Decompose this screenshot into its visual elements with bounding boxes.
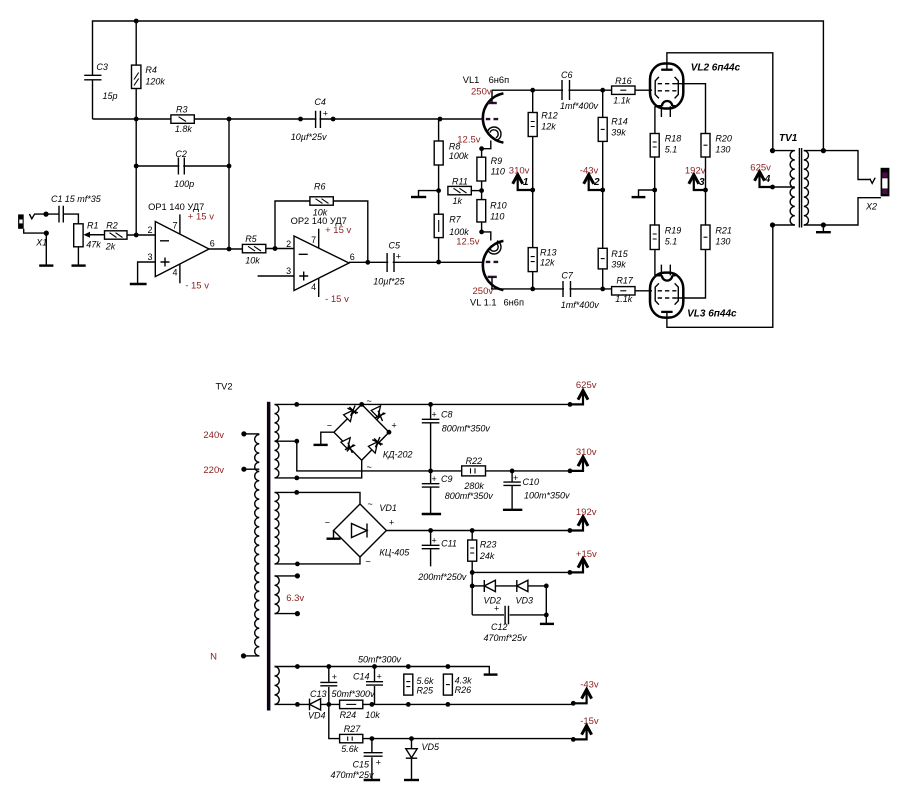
ground W4 top line bbox=[484, 673, 498, 675]
svg-text:10k: 10k bbox=[245, 256, 260, 266]
svg-text:+: + bbox=[332, 672, 337, 682]
svg-text:−: − bbox=[325, 518, 330, 528]
tube VL1.1 lower triode envelope bbox=[483, 241, 504, 290]
svg-text:130: 130 bbox=[715, 237, 730, 247]
node arrow 625v bbox=[570, 380, 597, 404]
node arrow 310v bbox=[570, 447, 597, 471]
tube VL2 beam plates bbox=[655, 77, 678, 99]
node arrow 192v bbox=[570, 507, 597, 531]
wire R20 R21 column bbox=[705, 157, 707, 225]
ground OP1 pin3 bbox=[130, 283, 147, 285]
svg-text:100k: 100k bbox=[449, 227, 469, 237]
svg-text:12.5v: 12.5v bbox=[457, 135, 480, 146]
ground C12 bbox=[545, 615, 547, 623]
tube VL2 screen grid bbox=[658, 83, 677, 85]
resistor R8 bbox=[434, 141, 469, 165]
svg-text:250v: 250v bbox=[473, 286, 494, 297]
capacitor C7 bbox=[561, 271, 600, 311]
svg-text:470mf*25v: 470mf*25v bbox=[484, 633, 528, 643]
wire R5 to OP2 pin2 bbox=[266, 248, 294, 250]
wire TV1 secondary top to X2 tip bbox=[804, 151, 870, 180]
resistor R6 bbox=[310, 182, 333, 218]
capacitor C9 bbox=[422, 471, 493, 513]
svg-text:+: + bbox=[389, 518, 394, 528]
svg-text:~: ~ bbox=[367, 396, 372, 406]
capacitor C4 bbox=[291, 97, 328, 142]
wire OP2 pin3 stub bbox=[258, 275, 294, 277]
tube VL1.1 grid bbox=[486, 261, 498, 263]
svg-text:R15: R15 bbox=[611, 249, 629, 259]
wire +15v line bbox=[472, 571, 570, 573]
capacitor C3 bbox=[84, 62, 117, 101]
tube VL3 beam plates bbox=[655, 283, 678, 304]
resistor R3 bbox=[171, 105, 194, 135]
terminal 6.3v top bbox=[275, 575, 298, 577]
tube VL1 cathode lead bbox=[482, 141, 491, 149]
svg-text:1.8k: 1.8k bbox=[175, 124, 193, 134]
svg-text:39k: 39k bbox=[611, 128, 626, 138]
resistor R21 bbox=[701, 225, 732, 250]
ground bridge KD-202 bbox=[321, 432, 334, 444]
svg-text:6н6п: 6н6п bbox=[504, 298, 525, 308]
svg-text:2: 2 bbox=[147, 225, 152, 235]
tube VL1 upper triode envelope bbox=[483, 93, 504, 142]
svg-text:7: 7 bbox=[172, 221, 177, 231]
wire TV1 secondary bottom and X2 return loop bbox=[804, 198, 881, 225]
svg-text:TV1: TV1 bbox=[779, 133, 798, 144]
connector X2 tip contact bbox=[870, 178, 875, 184]
resistor R17 bbox=[612, 276, 635, 305]
svg-text:+: + bbox=[376, 758, 381, 768]
svg-text:1mf*400v: 1mf*400v bbox=[561, 300, 600, 310]
svg-text:4: 4 bbox=[764, 174, 771, 185]
svg-text:24k: 24k bbox=[479, 551, 495, 561]
svg-text:C7: C7 bbox=[561, 271, 573, 281]
wire C1 to R1 top bbox=[63, 214, 78, 224]
resistor R23 bbox=[468, 540, 497, 562]
wire C3 bottom lead bbox=[92, 80, 94, 119]
svg-text:C1: C1 bbox=[51, 194, 63, 204]
svg-text:C3: C3 bbox=[96, 62, 108, 72]
svg-text:R27: R27 bbox=[344, 724, 362, 734]
transformer TV1 primary winding bbox=[790, 151, 795, 225]
transformer TV2 winding W2 bbox=[275, 492, 279, 564]
resistor R25 bbox=[404, 674, 434, 695]
svg-text:R4: R4 bbox=[145, 65, 157, 75]
svg-text:-43v: -43v bbox=[580, 165, 599, 176]
wire R16 to VL2 grid bbox=[635, 89, 652, 91]
resistor R12 bbox=[528, 111, 558, 137]
wire R23 column bbox=[471, 531, 473, 615]
svg-text:C5: C5 bbox=[389, 241, 401, 251]
svg-text:310v: 310v bbox=[509, 165, 530, 176]
svg-text:- 15 v: - 15 v bbox=[185, 281, 209, 292]
svg-text:+: + bbox=[432, 410, 437, 420]
svg-text:VD5: VD5 bbox=[422, 742, 441, 752]
capacitor C8 bbox=[422, 404, 491, 471]
capacitor C1 bbox=[51, 194, 102, 223]
svg-text:12k: 12k bbox=[540, 258, 555, 268]
connector X1 bbox=[18, 214, 47, 248]
svg-text:R21: R21 bbox=[715, 226, 732, 236]
resistor R18 bbox=[650, 134, 681, 158]
svg-text:470mf*25v: 470mf*25v bbox=[331, 770, 375, 780]
wire R14 R15 column bbox=[602, 90, 604, 289]
svg-text:110: 110 bbox=[490, 212, 504, 222]
diode bridge bottom-left bbox=[341, 438, 355, 453]
svg-text:4.3k: 4.3k bbox=[455, 676, 473, 686]
wire W4 bottom -43v line bbox=[275, 703, 574, 705]
wire R17 to VL3 grid bbox=[635, 290, 652, 292]
wire R12 R13 column bbox=[532, 90, 534, 289]
svg-text:250v: 250v bbox=[471, 87, 492, 98]
svg-text:R10: R10 bbox=[490, 201, 507, 211]
wire R18 R19 column bbox=[654, 157, 656, 225]
svg-text:VL2 6п44с: VL2 6п44с bbox=[691, 63, 741, 74]
svg-text:R16: R16 bbox=[615, 76, 632, 86]
rectifier VD1 frame bbox=[334, 504, 387, 557]
wire R2 to OP1 pin2 bbox=[127, 234, 155, 236]
svg-text:R22: R22 bbox=[466, 456, 483, 466]
wire VL2 cathode to R18 bbox=[654, 106, 656, 133]
svg-text:КЦ-405: КЦ-405 bbox=[379, 548, 410, 558]
svg-text:625v: 625v bbox=[576, 380, 597, 391]
wire VL2 screen to R20 bbox=[677, 84, 706, 134]
tube VL3 heater legs bbox=[661, 265, 670, 276]
capacitor C11 bbox=[417, 531, 467, 583]
svg-text:47k: 47k bbox=[86, 240, 101, 250]
svg-text:192v: 192v bbox=[685, 165, 706, 176]
svg-text:12k: 12k bbox=[541, 122, 556, 132]
ground R1 bbox=[72, 264, 86, 266]
svg-text:R13: R13 bbox=[540, 248, 557, 258]
node arrow -15v bbox=[573, 716, 599, 739]
svg-text:~: ~ bbox=[367, 462, 372, 472]
svg-text:2: 2 bbox=[286, 239, 291, 249]
svg-text:3: 3 bbox=[286, 266, 291, 276]
svg-text:R19: R19 bbox=[665, 226, 682, 236]
capacitor C10 bbox=[503, 471, 570, 509]
svg-text:C14: C14 bbox=[353, 672, 370, 682]
svg-text:R24: R24 bbox=[340, 710, 357, 720]
tube VL1.1 cathode bbox=[487, 241, 501, 254]
transformer TV2 primary winding bbox=[255, 435, 260, 656]
wire R6 feedback loop bbox=[275, 201, 368, 262]
svg-text:1.1k: 1.1k bbox=[613, 96, 631, 106]
svg-text:+: + bbox=[396, 252, 401, 262]
capacitor C15 bbox=[331, 739, 383, 780]
wire VL2 anode to TV1 primary top bbox=[667, 53, 773, 151]
wire R18 R19 midpoint ground stub bbox=[639, 190, 655, 196]
potentiometer R1 bbox=[74, 221, 105, 250]
svg-text:3: 3 bbox=[699, 177, 705, 188]
wire HV mid tap 310v rail bbox=[275, 441, 571, 471]
node arrow -43v bbox=[573, 680, 599, 704]
svg-text:4: 4 bbox=[311, 282, 316, 292]
resistor R14 bbox=[598, 117, 628, 142]
svg-text:200mf*250v: 200mf*250v bbox=[417, 572, 467, 582]
terminal 220v bbox=[244, 468, 259, 470]
svg-text:800mf*350v: 800mf*350v bbox=[445, 491, 494, 501]
svg-text:~: ~ bbox=[368, 499, 373, 509]
svg-text:R1: R1 bbox=[87, 221, 99, 231]
wire HV top lead 625v rail bbox=[275, 403, 571, 405]
svg-text:6: 6 bbox=[210, 239, 215, 249]
wire R27 branch bbox=[329, 704, 574, 738]
diode VD4 bbox=[308, 699, 326, 721]
resistor R24 bbox=[340, 700, 381, 720]
wire top feedback rail from C3 to TV1 secondary bbox=[93, 21, 824, 151]
svg-text:R23: R23 bbox=[480, 540, 497, 550]
tube VL2 control grid bbox=[658, 90, 677, 92]
ground VD1 bbox=[333, 531, 335, 539]
svg-text:~: ~ bbox=[366, 557, 371, 567]
svg-text:C4: C4 bbox=[314, 97, 326, 107]
svg-text:+: + bbox=[323, 109, 328, 119]
svg-text:N: N bbox=[210, 652, 217, 663]
svg-text:10µf*25v: 10µf*25v bbox=[291, 132, 327, 142]
svg-text:C13: C13 bbox=[310, 689, 327, 699]
wire C2 line bbox=[136, 165, 229, 167]
resistor R26 bbox=[443, 674, 472, 695]
ground C10 bbox=[503, 509, 522, 511]
resistor R22 bbox=[462, 456, 486, 491]
transformer TV2 winding W4 bbox=[275, 667, 280, 705]
wire OP1 pin3 ground stub bbox=[138, 262, 156, 283]
svg-text:5.6k: 5.6k bbox=[341, 744, 359, 754]
resistor R19 bbox=[650, 225, 681, 250]
capacitor C2 bbox=[174, 149, 194, 189]
svg-text:100k: 100k bbox=[449, 151, 469, 161]
svg-text:280k: 280k bbox=[463, 481, 484, 491]
svg-text:6н6п: 6н6п bbox=[489, 75, 510, 85]
resistor R2 bbox=[105, 221, 128, 252]
wire R1 bottom to ground bbox=[77, 247, 79, 265]
tube VL3 screen grid bbox=[658, 297, 677, 299]
svg-text:15p: 15p bbox=[103, 91, 118, 101]
wire TV1 secondary ground stub bbox=[822, 225, 824, 232]
svg-text:R18: R18 bbox=[665, 134, 682, 144]
svg-text:R25: R25 bbox=[417, 686, 435, 696]
svg-text:VL1: VL1 bbox=[463, 75, 480, 85]
svg-text:-15v: -15v bbox=[580, 716, 599, 727]
tube VL1 grid bbox=[486, 118, 498, 120]
junction dots amp bbox=[43, 19, 826, 292]
resistor R13 bbox=[528, 248, 556, 272]
connector X2 jack bbox=[865, 168, 889, 212]
svg-text:C12: C12 bbox=[491, 622, 508, 632]
wire R1 wiper to R2 bbox=[89, 234, 105, 236]
svg-text:VD1: VD1 bbox=[379, 503, 397, 513]
svg-text:C10: C10 bbox=[523, 477, 540, 487]
svg-text:120k: 120k bbox=[145, 77, 165, 87]
tube VL2 anode bbox=[661, 69, 672, 71]
svg-text:1: 1 bbox=[523, 177, 529, 188]
rectifier VD1 diode bbox=[352, 524, 368, 538]
svg-text:240v: 240v bbox=[203, 430, 224, 441]
wire OP1 output column bbox=[228, 119, 230, 249]
node 4 arrow 625v bbox=[750, 163, 772, 188]
svg-text:-43v: -43v bbox=[580, 680, 599, 691]
svg-text:X1: X1 bbox=[35, 238, 47, 248]
wire VL3 anode to TV1 primary bottom bbox=[667, 225, 773, 327]
svg-text:R14: R14 bbox=[611, 117, 628, 127]
wire cathode column R9 R10 bbox=[481, 149, 483, 232]
svg-text:6.3v: 6.3v bbox=[286, 593, 304, 604]
svg-text:310v: 310v bbox=[576, 447, 597, 458]
svg-text:C9: C9 bbox=[441, 474, 453, 484]
svg-text:КД-202: КД-202 bbox=[383, 450, 413, 460]
node 2 arrow -43v bbox=[580, 165, 603, 190]
wire W2 bottom to VD1 bbox=[275, 557, 361, 564]
resistor R15 bbox=[598, 248, 629, 269]
svg-text:800mf*350v: 800mf*350v bbox=[442, 424, 491, 434]
svg-text:R2: R2 bbox=[106, 221, 118, 231]
svg-text:VD3: VD3 bbox=[516, 596, 534, 606]
transformer TV2 core bbox=[267, 402, 271, 711]
terminal 240v bbox=[244, 433, 259, 435]
svg-text:1.1k: 1.1k bbox=[615, 294, 633, 304]
resistor R27 bbox=[340, 724, 363, 754]
svg-text:4: 4 bbox=[172, 268, 177, 278]
tube VL3 envelope bbox=[650, 273, 683, 318]
wire VL1.1 anode line y288.9 to R17 bbox=[491, 288, 612, 290]
svg-text:220v: 220v bbox=[203, 465, 224, 476]
op-amp OP1 bbox=[147, 202, 214, 292]
tube VL1 anode bbox=[488, 102, 497, 104]
svg-text:- 15 v: - 15 v bbox=[325, 294, 349, 305]
svg-text:R9: R9 bbox=[491, 156, 503, 166]
resistor R20 bbox=[701, 134, 732, 158]
svg-text:C8: C8 bbox=[441, 410, 453, 420]
resistor R10 bbox=[477, 200, 507, 222]
svg-text:OP1 140 УД7: OP1 140 УД7 bbox=[148, 202, 204, 212]
transformer TV2 HV winding bbox=[275, 404, 279, 478]
wire grid line y119 from C3 node to VL1 grid bbox=[93, 118, 484, 120]
svg-text:5.6k: 5.6k bbox=[417, 676, 435, 686]
resistor R9 bbox=[477, 156, 505, 181]
svg-text:VD4: VD4 bbox=[308, 711, 326, 721]
svg-text:R6: R6 bbox=[314, 182, 326, 192]
wire HV bottom lead bbox=[275, 460, 362, 478]
diode VD2 bbox=[472, 580, 501, 606]
diode bridge top-right bbox=[371, 406, 385, 421]
svg-text:R17: R17 bbox=[616, 276, 634, 286]
tube VL3 anode bbox=[661, 311, 672, 313]
svg-text:5.1: 5.1 bbox=[665, 237, 678, 247]
svg-text:50mf*300v: 50mf*300v bbox=[358, 655, 402, 665]
tube VL1.1 cathode lead bbox=[482, 232, 491, 241]
svg-text:3: 3 bbox=[147, 252, 152, 262]
wire X1 sleeve to ground bbox=[24, 229, 47, 265]
wire R11 to cathode column bbox=[471, 190, 481, 192]
wire R11 ground stub bbox=[419, 191, 439, 197]
transformer TV1 core bbox=[799, 148, 801, 228]
svg-text:R7: R7 bbox=[449, 215, 461, 225]
node arrow +15v bbox=[570, 549, 597, 572]
tube VL2 cathode bbox=[655, 101, 676, 106]
wire VL1 anode line y90 to R16 bbox=[492, 89, 612, 91]
wire R4 column from top rail to OP1 pin2 node bbox=[135, 21, 137, 235]
wire VD1 out 192v rail bbox=[386, 530, 570, 532]
transformer TV1 secondary winding bbox=[804, 151, 809, 225]
svg-text:R3: R3 bbox=[176, 105, 188, 115]
wire OP1 output to R5 bbox=[209, 248, 242, 250]
resistor R7 bbox=[434, 214, 469, 237]
svg-text:1k: 1k bbox=[453, 196, 463, 206]
wire OP2 output through C5 to VL1.1 grid bbox=[349, 261, 483, 263]
svg-text:+: + bbox=[513, 473, 518, 483]
tube VL1 cathode bbox=[487, 127, 501, 140]
diode bridge top-left bbox=[344, 406, 358, 422]
capacitor C13 bbox=[310, 667, 375, 705]
svg-text:6: 6 bbox=[350, 252, 355, 262]
svg-text:7: 7 bbox=[311, 235, 316, 245]
ground X1 bbox=[39, 264, 53, 266]
diode VD5 bbox=[406, 739, 440, 780]
svg-text:192v: 192v bbox=[576, 507, 597, 518]
svg-text:15 mf*35: 15 mf*35 bbox=[65, 194, 102, 204]
svg-text:R5: R5 bbox=[245, 234, 257, 244]
svg-text:10µf*25: 10µf*25 bbox=[373, 277, 405, 287]
svg-text:R20: R20 bbox=[715, 134, 732, 144]
tube VL3 control grid bbox=[658, 290, 677, 292]
svg-text:110: 110 bbox=[491, 167, 505, 177]
svg-text:2: 2 bbox=[593, 177, 600, 188]
svg-text:5.1: 5.1 bbox=[665, 145, 678, 155]
ground R11 bbox=[411, 196, 426, 198]
svg-text:TV2: TV2 bbox=[216, 382, 233, 392]
resistor R11 bbox=[448, 177, 471, 207]
svg-text:10k: 10k bbox=[365, 710, 380, 720]
svg-text:C2: C2 bbox=[175, 149, 187, 159]
svg-text:+: + bbox=[432, 536, 437, 546]
node 3 arrow 192v bbox=[685, 165, 706, 190]
svg-text:+: + bbox=[494, 604, 499, 614]
wire W4 top line bbox=[275, 667, 490, 674]
svg-text:+: + bbox=[392, 421, 397, 431]
svg-text:100m*350v: 100m*350v bbox=[524, 491, 570, 501]
svg-text:+: + bbox=[377, 672, 382, 682]
junction dots PSU bbox=[241, 402, 576, 742]
svg-text:R11: R11 bbox=[452, 177, 468, 187]
svg-text:1mf*400v: 1mf*400v bbox=[560, 101, 599, 111]
wire W2 top to VD1 bbox=[275, 492, 361, 504]
svg-text:+ 15 v: + 15 v bbox=[188, 212, 214, 223]
capacitor C5 bbox=[373, 241, 405, 287]
rectifier bridge KD-202 frame bbox=[334, 404, 389, 460]
tube VL1.1 anode bbox=[488, 276, 497, 278]
wire bias column R8 R7 bbox=[438, 119, 440, 262]
terminal 6.3v bottom bbox=[275, 613, 298, 615]
ground R18 R19 midpoint bbox=[632, 196, 646, 198]
capacitor C6 bbox=[560, 70, 599, 111]
svg-text:R12: R12 bbox=[541, 111, 558, 121]
svg-text:VL 1.1: VL 1.1 bbox=[470, 298, 497, 308]
svg-text:100p: 100p bbox=[174, 179, 194, 189]
tube VL2 heater legs bbox=[661, 106, 670, 117]
resistor R16 bbox=[612, 76, 635, 106]
capacitor C12 bbox=[472, 604, 546, 644]
diode bridge bottom-right bbox=[368, 437, 382, 453]
ground C9 bbox=[422, 513, 441, 515]
ground VD5 bbox=[404, 779, 419, 781]
svg-text:50mf*300v: 50mf*300v bbox=[332, 689, 376, 699]
wire R21 to VL3 screen bbox=[677, 250, 706, 298]
svg-text:+15v: +15v bbox=[576, 549, 597, 560]
svg-text:VL3 6п44с: VL3 6п44с bbox=[687, 309, 737, 320]
svg-text:130: 130 bbox=[715, 145, 730, 155]
